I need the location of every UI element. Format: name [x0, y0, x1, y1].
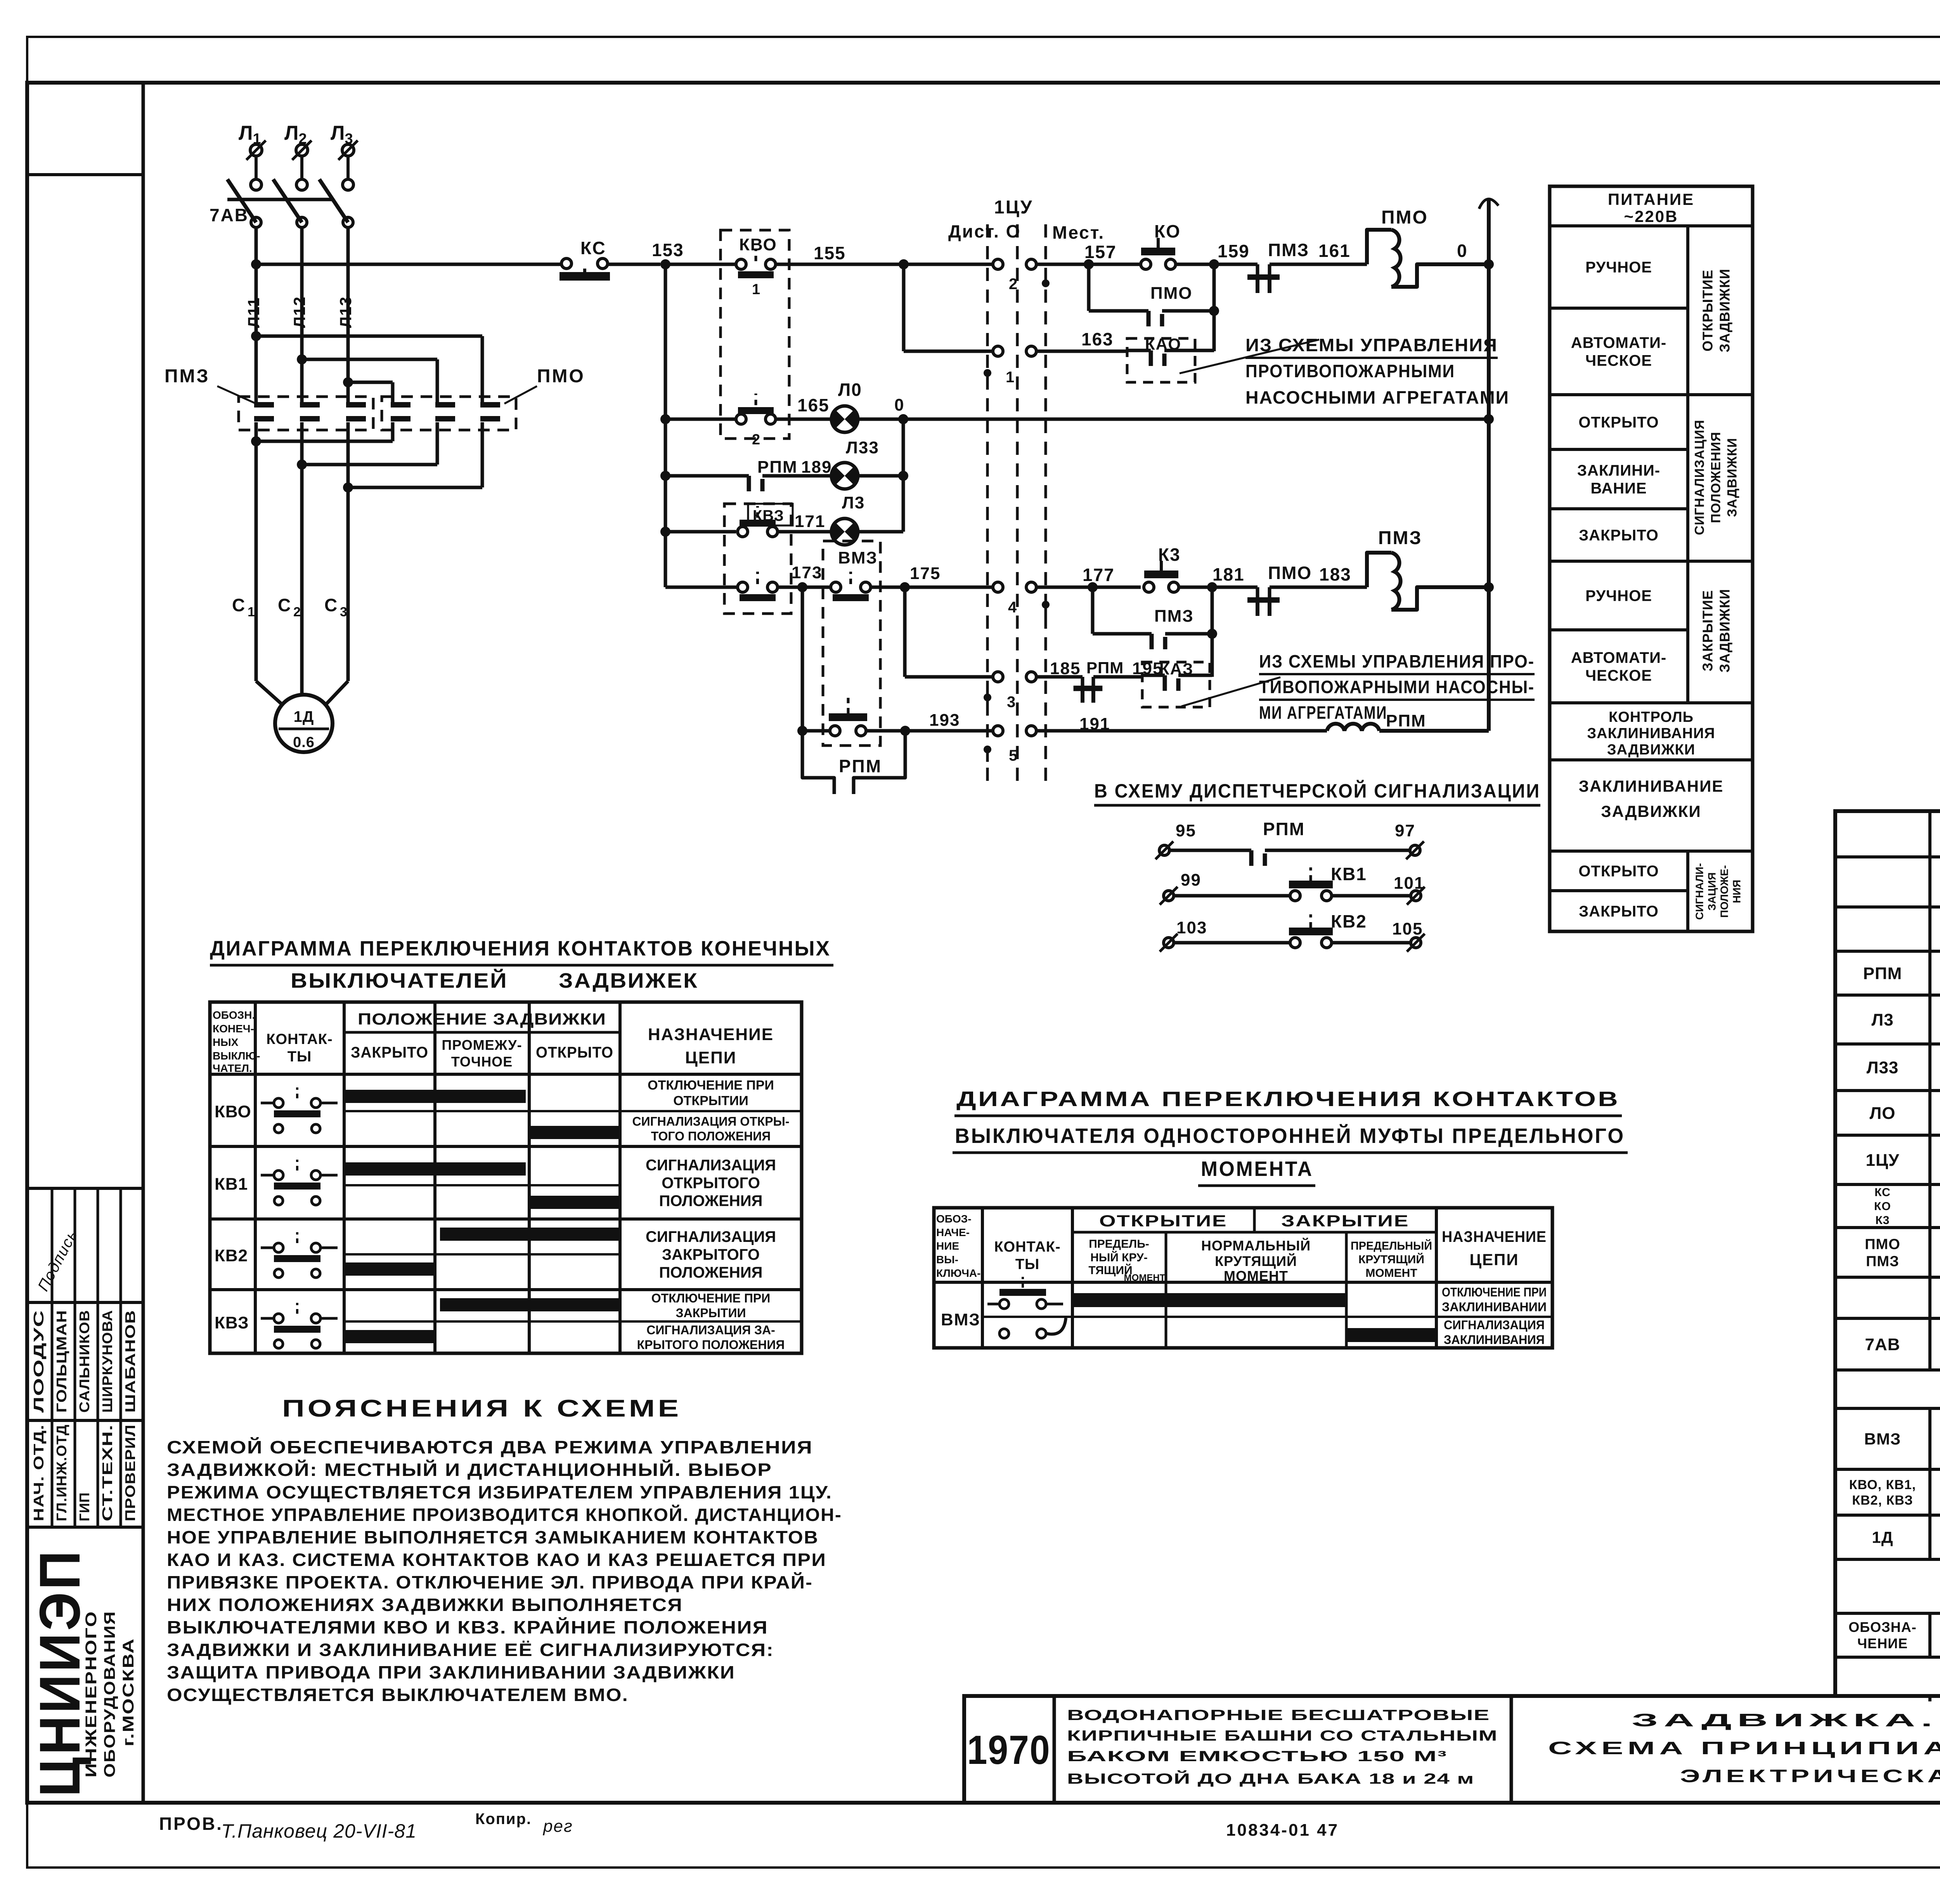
svg-text:7АВ: 7АВ	[1865, 1335, 1900, 1354]
КВ1 state bars	[344, 1162, 526, 1176]
relay contact РПМ (NO)	[747, 476, 751, 491]
svg-text:Л11: Л11	[244, 297, 263, 328]
svg-text:КВЗ: КВЗ	[215, 1313, 249, 1332]
svg-text:1: 1	[752, 281, 760, 298]
svg-text:К3: К3	[1876, 1214, 1890, 1227]
svg-text:ЦЕПИ: ЦЕПИ	[1469, 1250, 1519, 1269]
svg-text:Л0: Л0	[838, 380, 862, 400]
КВО contact 2	[736, 414, 746, 424]
torque switch table	[934, 1208, 1552, 1348]
svg-text:г.МОСКВА: г.МОСКВА	[120, 1638, 137, 1746]
wire rail to КВО	[665, 263, 736, 266]
svg-text:ДИАГРАММА ПЕРЕКЛЮЧЕНИЯ КОНТА: ДИАГРАММА ПЕРЕКЛЮЧЕНИЯ КОНТАКТОВ	[956, 1087, 1620, 1111]
limit switch table	[210, 1002, 802, 1353]
svg-text:ОТКРЫТО: ОТКРЫТО	[536, 1044, 613, 1061]
svg-text:ПМЗ: ПМЗ	[1378, 528, 1422, 548]
svg-text:ПОЛОЖЕНИЯ: ПОЛОЖЕНИЯ	[1709, 432, 1723, 523]
svg-text:С: С	[324, 595, 338, 615]
1ЦУ contact 5	[993, 726, 1003, 736]
svg-text:ОТКЛЮЧЕНИЕ ПРИ: ОТКЛЮЧЕНИЕ ПРИ	[648, 1078, 774, 1092]
svg-text:189: 189	[801, 458, 832, 477]
main contact	[391, 402, 411, 408]
svg-text:Л13: Л13	[336, 296, 355, 328]
svg-text:КИРПИЧНЫЕ БАШНИ СО СТАЛЬНЫМ: КИРПИЧНЫЕ БАШНИ СО СТАЛЬНЫМ	[1067, 1728, 1498, 1744]
svg-text:КРУТЯЩИЙ: КРУТЯЩИЙ	[1215, 1253, 1297, 1269]
svg-text:РПМ: РПМ	[839, 756, 882, 776]
svg-text:КВО, КВ1,: КВО, КВ1,	[1849, 1477, 1916, 1492]
svg-text:МОМЕНТ: МОМЕНТ	[1365, 1267, 1417, 1280]
wire 181	[1179, 586, 1258, 589]
svg-text:0: 0	[1457, 241, 1467, 261]
svg-text:РПМ: РПМ	[1086, 659, 1124, 677]
wire 157	[1036, 263, 1141, 266]
svg-text:КРЫТОГО ПОЛОЖЕНИЯ: КРЫТОГО ПОЛОЖЕНИЯ	[637, 1338, 785, 1352]
svg-text:НОРМАЛЬНЫЙ: НОРМАЛЬНЫЙ	[1201, 1237, 1311, 1254]
svg-text:ЛООДУС: ЛООДУС	[31, 1310, 47, 1413]
stamp column box lines	[27, 173, 143, 176]
svg-text:НЫЙ КРУ-: НЫЙ КРУ-	[1090, 1251, 1148, 1264]
supply table ПИТАНИЕ ~220В	[1550, 186, 1753, 931]
lamp row Л33	[665, 474, 749, 478]
1ЦУ contact 3	[993, 672, 1003, 682]
svg-text:191: 191	[1079, 714, 1110, 734]
svg-text:185: 185	[1050, 659, 1081, 678]
svg-text:КС: КС	[580, 238, 606, 258]
КВО state bars	[344, 1090, 526, 1103]
contactor ПМЗ main contacts (dashed box)	[239, 397, 373, 430]
svg-text:ПМО: ПМО	[1381, 207, 1428, 228]
svg-text:ЛО: ЛО	[1869, 1104, 1895, 1123]
svg-text:10834-01 47: 10834-01 47	[1226, 1821, 1339, 1840]
phase wire Л13	[346, 227, 350, 404]
svg-text:СИГНАЛИЗАЦИЯ ОТКРЫ-: СИГНАЛИЗАЦИЯ ОТКРЫ-	[632, 1115, 789, 1129]
svg-text:КС: КС	[1874, 1186, 1891, 1199]
svg-text:157: 157	[1084, 242, 1117, 262]
svg-text:ИНЖЕНЕРНОГО: ИНЖЕНЕРНОГО	[83, 1611, 100, 1777]
contactor ПМО main contacts (dashed box)	[382, 397, 516, 430]
lamp row Л3	[665, 530, 736, 534]
svg-text:1Д: 1Д	[1872, 1528, 1893, 1547]
svg-text:ПМО: ПМО	[1268, 563, 1312, 583]
aux contact ПМО (seal-in)	[1087, 264, 1091, 311]
svg-text:НАЗНАЧЕНИЕ: НАЗНАЧЕНИЕ	[648, 1025, 774, 1044]
line terminal Л2	[296, 144, 308, 156]
wire 177	[1036, 586, 1141, 589]
svg-text:РПМ: РПМ	[1263, 819, 1305, 839]
svg-text:~220В: ~220В	[1624, 207, 1678, 225]
phase wire Л12	[300, 227, 304, 404]
svg-text:В СХЕМУ ДИСПЕТЧЕРСКОЙ СИГНАЛИЗ: В СХЕМУ ДИСПЕТЧЕРСКОЙ СИГНАЛИЗАЦИИ	[1094, 780, 1540, 802]
leader to note 1	[1180, 340, 1319, 373]
svg-text:АВТОМАТИ-: АВТОМАТИ-	[1571, 335, 1667, 352]
svg-text:КОНТАК-: КОНТАК-	[266, 1031, 333, 1047]
svg-text:ЦЕПИ: ЦЕПИ	[685, 1048, 737, 1067]
motor leads С1 С2 С3	[255, 422, 258, 681]
svg-text:ПМО: ПМО	[1865, 1236, 1900, 1252]
svg-text:С: С	[232, 595, 245, 615]
svg-text:ПРЕДЕЛЬ-: ПРЕДЕЛЬ-	[1089, 1238, 1149, 1250]
svg-text:2: 2	[1009, 276, 1018, 293]
svg-text:183: 183	[1319, 564, 1351, 584]
line terminal Л3	[342, 144, 354, 156]
crossover junctions to reversing contacts	[251, 331, 261, 341]
svg-text:ДИАГРАММА ПЕРЕКЛЮЧЕНИЯ КОНТАК: ДИАГРАММА ПЕРЕКЛЮЧЕНИЯ КОНТАКТОВ КОНЕЧНЫ…	[210, 937, 831, 960]
svg-text:ИЗ СХЕМЫ УПРАВЛЕНИЯ ПРО-: ИЗ СХЕМЫ УПРАВЛЕНИЯ ПРО-	[1259, 651, 1535, 671]
torque switch ВМЗ (dashed box)	[823, 541, 880, 746]
right bus wire with hook	[1487, 199, 1491, 731]
КВЗ contact on lamp row	[738, 527, 748, 537]
svg-text:рег: рег	[542, 1817, 573, 1836]
wire 159	[1176, 263, 1258, 266]
left bus wire	[664, 264, 667, 587]
svg-text:ОБОРУДОВАНИЯ: ОБОРУДОВАНИЯ	[101, 1611, 118, 1777]
КВЗ state bars	[440, 1298, 622, 1311]
svg-text:ЗАДВИЖКИ: ЗАДВИЖКИ	[1717, 269, 1733, 352]
svg-text:КОНЕЧ-: КОНЕЧ-	[213, 1023, 254, 1035]
ВМЗ contact (NC)	[831, 582, 841, 592]
svg-text:НАСОСНЫМИ АГРЕГАТАМИ: НАСОСНЫМИ АГРЕГАТАМИ	[1245, 387, 1509, 408]
svg-text:177: 177	[1083, 565, 1115, 585]
svg-text:99: 99	[1181, 870, 1201, 890]
svg-text:КРУТЯЩИЙ: КРУТЯЩИЙ	[1358, 1253, 1424, 1266]
wire 155	[776, 263, 993, 266]
svg-text:ПРОВЕРИЛ: ПРОВЕРИЛ	[122, 1424, 138, 1521]
svg-text:КВ2: КВ2	[215, 1246, 248, 1265]
svg-text:ОТКРЫТИИ: ОТКРЫТИИ	[673, 1093, 748, 1108]
line terminal Л1	[250, 144, 262, 156]
svg-text:ВАНИЕ: ВАНИЕ	[1590, 480, 1647, 497]
signal row 99-101 КВ1	[1164, 891, 1174, 901]
holding row 193	[797, 726, 807, 736]
relay contact РПМ (NO button style)	[830, 726, 840, 736]
svg-text:153: 153	[652, 240, 684, 260]
wire 191	[1036, 729, 1327, 733]
svg-text:ГЛ.ИНЖ.ОТД: ГЛ.ИНЖ.ОТД	[54, 1424, 69, 1521]
1ЦУ contact 4	[993, 582, 1003, 592]
svg-text:ИЗ СХЕМЫ УПРАВЛЕНИЯ: ИЗ СХЕМЫ УПРАВЛЕНИЯ	[1245, 335, 1498, 355]
svg-text:ПМЗ: ПМЗ	[1154, 607, 1194, 626]
svg-text:173: 173	[792, 563, 822, 582]
svg-text:105: 105	[1392, 919, 1423, 938]
svg-text:ОТКЛЮЧЕНИЕ ПРИ: ОТКЛЮЧЕНИЕ ПРИ	[1442, 1285, 1547, 1299]
svg-text:НИЕ: НИЕ	[936, 1240, 959, 1252]
svg-text:95: 95	[1176, 821, 1196, 840]
svg-text:ПРОВ.: ПРОВ.	[159, 1814, 223, 1834]
closing row 173	[665, 586, 738, 589]
svg-text:Копир.: Копир.	[475, 1810, 532, 1828]
svg-text:4: 4	[1008, 599, 1017, 616]
wire 185	[1036, 675, 1083, 679]
svg-text:МОМЕНТ: МОМЕНТ	[1124, 1273, 1166, 1283]
КВЗ contact 2 (NC)	[738, 582, 748, 592]
1ЦУ contact 1	[993, 346, 1003, 356]
limit switch КВЗ (dashed box)	[724, 504, 791, 614]
svg-text:СХЕМОЙ ОБЕСПЕЧИВАЮТСЯ ДВА РЕЖИ: СХЕМОЙ ОБЕСПЕЧИВАЮТСЯ ДВА РЕЖИМА УПРАВЛЕ…	[167, 1437, 813, 1457]
РПМ seal loop	[802, 731, 834, 794]
main contact	[435, 402, 455, 408]
svg-text:РУЧНОЕ: РУЧНОЕ	[1585, 588, 1652, 605]
svg-text:ПОЯСНЕНИЯ К СХЕМЕ: ПОЯСНЕНИЯ К СХЕМЕ	[282, 1395, 682, 1422]
svg-text:ВЫСОТОЙ ДО ДНА БАКА 18 и 24 м: ВЫСОТОЙ ДО ДНА БАКА 18 и 24 м	[1067, 1770, 1474, 1787]
remote contact КАЗ (dashed box)	[1142, 662, 1210, 707]
svg-text:ОТКРЫТОГО: ОТКРЫТОГО	[662, 1175, 760, 1192]
ВМЗ contact symbol	[987, 1303, 999, 1306]
svg-text:ЗАДВИЖКИ: ЗАДВИЖКИ	[1601, 802, 1701, 820]
svg-text:ЧАТЕЛ.: ЧАТЕЛ.	[213, 1062, 252, 1074]
svg-text:3: 3	[340, 605, 347, 619]
svg-text:Т.Панковец 20-VII-81: Т.Панковец 20-VII-81	[221, 1820, 417, 1842]
svg-text:ВОДОНАПОРНЫЕ БЕСШАТРОВЫЕ: ВОДОНАПОРНЫЕ БЕСШАТРОВЫЕ	[1067, 1707, 1490, 1724]
svg-text:ЧЕНИЕ: ЧЕНИЕ	[1857, 1635, 1908, 1651]
breaker blade	[273, 179, 302, 222]
signal row 95-97 РПМ	[1159, 845, 1169, 855]
svg-text:Мест.: Мест.	[1052, 222, 1105, 243]
svg-text:ЗАДВИЖКИ: ЗАДВИЖКИ	[1717, 589, 1733, 673]
svg-text:193: 193	[929, 711, 960, 730]
wire 163	[1036, 350, 1127, 353]
svg-text:КВ2: КВ2	[1331, 911, 1367, 931]
svg-text:ШИРКУНОВА: ШИРКУНОВА	[99, 1310, 115, 1413]
svg-text:ПМЗ: ПМЗ	[165, 366, 210, 387]
svg-text:СХЕМА ПРИНЦИПИАЛЬНАЯ: СХЕМА ПРИНЦИПИАЛЬНАЯ	[1548, 1738, 1940, 1758]
svg-text:ВЫКЛЮ-: ВЫКЛЮ-	[213, 1050, 260, 1062]
svg-text:МОМЕНТ: МОМЕНТ	[1224, 1268, 1288, 1284]
svg-text:ПИТАНИЕ: ПИТАНИЕ	[1608, 190, 1694, 208]
svg-text:1Д: 1Д	[294, 708, 314, 725]
svg-text:ОБОЗН.: ОБОЗН.	[213, 1009, 255, 1021]
svg-text:ЗАДВИЖКИ: ЗАДВИЖКИ	[1725, 438, 1740, 517]
svg-text:ЗАКЛИНИВАНИЯ: ЗАКЛИНИВАНИЯ	[1444, 1333, 1545, 1347]
svg-text:ЗАКРЫТО: ЗАКРЫТО	[1579, 527, 1659, 544]
svg-text:РПМ: РПМ	[1863, 964, 1902, 983]
svg-text:ЗАЩИТА ПРИВОДА ПРИ ЗАКЛИНИВАНИ: ЗАЩИТА ПРИВОДА ПРИ ЗАКЛИНИВАНИИ ЗАДВИЖКИ	[167, 1662, 735, 1682]
svg-text:ПОЛОЖЕНИЯ: ПОЛОЖЕНИЯ	[659, 1264, 763, 1281]
svg-text:ОБОЗНА-: ОБОЗНА-	[1848, 1619, 1916, 1635]
svg-text:ОТКРЫТИЕ: ОТКРЫТИЕ	[1700, 269, 1716, 351]
svg-text:ОТКРЫТИЕ: ОТКРЫТИЕ	[1099, 1212, 1227, 1230]
svg-text:ЗАКРЫТО: ЗАКРЫТО	[1579, 903, 1659, 920]
lamp row Л0	[665, 418, 736, 421]
svg-text:СИГНАЛИЗАЦИЯ: СИГНАЛИЗАЦИЯ	[646, 1157, 776, 1174]
svg-text:2: 2	[752, 432, 760, 448]
svg-text:КВО: КВО	[215, 1102, 251, 1121]
svg-text:ВЫ-: ВЫ-	[936, 1254, 958, 1266]
svg-text:ЗАЦИЯ: ЗАЦИЯ	[1706, 872, 1718, 910]
control tap from phase Л11	[251, 259, 261, 269]
svg-text:РЕЖИМА ОСУЩЕСТВЛЯЕТСЯ ИЗБИРАТЕ: РЕЖИМА ОСУЩЕСТВЛЯЕТСЯ ИЗБИРАТЕЛЕМ УПРАВЛ…	[167, 1482, 832, 1502]
svg-text:ПРОМЕЖУ-: ПРОМЕЖУ-	[442, 1037, 522, 1053]
svg-text:ВЫКЛЮЧАТЕЛЕЙ: ВЫКЛЮЧАТЕЛЕЙ	[291, 969, 508, 992]
svg-text:СИГНАЛИЗАЦИЯ ЗА-: СИГНАЛИЗАЦИЯ ЗА-	[646, 1323, 775, 1337]
main contact	[480, 402, 500, 408]
svg-text:АВТОМАТИ-: АВТОМАТИ-	[1571, 649, 1667, 666]
svg-text:ПМЗ: ПМЗ	[1866, 1253, 1899, 1269]
relay coil РПМ	[1327, 724, 1379, 731]
1ЦУ contact 2	[993, 259, 1003, 269]
phase wire Л11	[255, 227, 258, 404]
svg-text:ПОЛОЖЕНИЯ: ПОЛОЖЕНИЯ	[659, 1193, 763, 1210]
svg-text:НОЕ УПРАВЛЕНИЕ ВЫПОЛНЯЕТСЯ ЗАМ: НОЕ УПРАВЛЕНИЕ ВЫПОЛНЯЕТСЯ ЗАМЫКАНИЕМ КО…	[167, 1527, 819, 1547]
svg-text:7АВ: 7АВ	[210, 205, 249, 225]
branch to remote contact 3	[903, 587, 907, 677]
breaker blade	[227, 179, 256, 222]
svg-text:КОНТАК-: КОНТАК-	[994, 1239, 1060, 1255]
svg-text:ОТКРЫТО: ОТКРЫТО	[1578, 414, 1659, 431]
svg-text:С: С	[278, 595, 291, 615]
interlock contact ПМЗ (NC)	[1256, 264, 1259, 274]
svg-text:НАЧЕ-: НАЧЕ-	[936, 1226, 970, 1238]
svg-text:103: 103	[1176, 918, 1207, 937]
svg-text:ВМЗ: ВМЗ	[941, 1310, 980, 1329]
svg-text:165: 165	[797, 395, 830, 415]
svg-text:ЗАКЛИНИВАНИЯ: ЗАКЛИНИВАНИЯ	[1587, 725, 1715, 742]
svg-text:ВЫКЛЮЧАТЕЛЯ ОДНОСТОРОННЕЙ МУ: ВЫКЛЮЧАТЕЛЯ ОДНОСТОРОННЕЙ МУФТЫ ПРЕДЕЛЬН…	[955, 1124, 1625, 1148]
КВ2 state bars	[440, 1228, 622, 1241]
svg-text:2: 2	[293, 605, 301, 619]
svg-text:ЗАДВИЖЕК: ЗАДВИЖЕК	[559, 969, 698, 992]
svg-text:КЛЮЧА-: КЛЮЧА-	[936, 1267, 980, 1279]
wire 161	[1270, 263, 1367, 266]
svg-text:Л33: Л33	[1867, 1058, 1899, 1077]
svg-text:0.6: 0.6	[293, 734, 315, 751]
svg-text:СИГНАЛИ-: СИГНАЛИ-	[1694, 863, 1706, 920]
remote contact КАО (dashed box)	[1127, 338, 1195, 382]
svg-text:ТЫ: ТЫ	[288, 1049, 312, 1065]
svg-text:Л12: Л12	[290, 296, 308, 328]
main contact	[346, 402, 366, 408]
svg-text:Л33: Л33	[846, 438, 879, 457]
signal row 103-105 КВ2	[1164, 938, 1174, 948]
svg-text:ЗАДВИЖКОЙ: МЕСТНЫЙ И ДИСТАНЦИО: ЗАДВИЖКОЙ: МЕСТНЫЙ И ДИСТАНЦИОННЫЙ. ВЫБО…	[167, 1460, 772, 1480]
svg-text:ЗАДВИЖКИ: ЗАДВИЖКИ	[1607, 742, 1695, 758]
svg-text:НЫХ: НЫХ	[213, 1036, 239, 1048]
svg-text:ЗАКРЫТИЕ: ЗАКРЫТИЕ	[1700, 590, 1716, 671]
svg-text:КО: КО	[1874, 1200, 1891, 1213]
svg-text:КАО И КАЗ. СИСТЕМА КОНТАКТОВ К: КАО И КАЗ. СИСТЕМА КОНТАКТОВ КАО И КАЗ Р…	[167, 1550, 826, 1570]
svg-text:Дист. О: Дист. О	[948, 221, 1021, 241]
svg-text:3: 3	[1007, 694, 1016, 711]
branch to remote contact 1	[902, 264, 906, 351]
svg-text:ТОГО ПОЛОЖЕНИЯ: ТОГО ПОЛОЖЕНИЯ	[651, 1129, 771, 1143]
svg-text:СИГНАЛИЗАЦИЯ: СИГНАЛИЗАЦИЯ	[1444, 1318, 1545, 1332]
svg-text:КВ2, КВЗ: КВ2, КВЗ	[1852, 1493, 1913, 1508]
svg-text:1970: 1970	[967, 1727, 1051, 1773]
svg-text:НАЗНАЧЕНИЕ: НАЗНАЧЕНИЕ	[1442, 1228, 1547, 1245]
svg-text:ВМЗ: ВМЗ	[838, 548, 878, 567]
selector switch 1ЦУ dashed lines	[986, 224, 989, 783]
svg-text:КВ1: КВ1	[1331, 864, 1367, 884]
svg-text:Л3: Л3	[842, 493, 865, 512]
svg-text:Л3: Л3	[1871, 1010, 1893, 1029]
equipment list table	[1835, 811, 1940, 1696]
svg-text:ПОЛОЖЕНИЕ ЗАДВИЖКИ: ПОЛОЖЕНИЕ ЗАДВИЖКИ	[358, 1010, 606, 1028]
motor 1Д	[275, 695, 333, 752]
svg-text:СИГНАЛИЗАЦИЯ: СИГНАЛИЗАЦИЯ	[1692, 420, 1707, 535]
svg-text:1ЦУ: 1ЦУ	[994, 197, 1033, 218]
svg-text:ЗАДВИЖКА.: ЗАДВИЖКА.	[1632, 1710, 1938, 1730]
svg-text:КВО: КВО	[739, 235, 777, 254]
svg-text:ГОЛЬЦМАН: ГОЛЬЦМАН	[54, 1310, 69, 1413]
svg-text:ЗАКРЫТИЕ: ЗАКРЫТИЕ	[1281, 1212, 1409, 1230]
stamp column divider	[142, 83, 145, 1803]
leader to note 2	[1181, 677, 1280, 706]
svg-text:ЧЕСКОЕ: ЧЕСКОЕ	[1585, 667, 1652, 684]
ВМЗ state bars	[1072, 1293, 1346, 1307]
svg-text:175: 175	[910, 564, 941, 583]
svg-text:1: 1	[1006, 369, 1015, 386]
svg-text:1: 1	[248, 605, 255, 619]
svg-text:НАЧ. ОТД.: НАЧ. ОТД.	[31, 1424, 47, 1521]
svg-text:ОТКЛЮЧЕНИЕ ПРИ: ОТКЛЮЧЕНИЕ ПРИ	[651, 1291, 771, 1305]
svg-text:РПМ: РПМ	[1386, 711, 1426, 730]
svg-text:1ЦУ: 1ЦУ	[1866, 1151, 1900, 1170]
svg-text:НИХ ПОЛОЖЕНИЯХ ЗАДВИЖКИ ВЫП: НИХ ПОЛОЖЕНИЯХ ЗАДВИЖКИ ВЫПОЛНЯЕТСЯ	[167, 1595, 683, 1615]
svg-text:0: 0	[894, 395, 904, 414]
svg-text:159: 159	[1218, 241, 1250, 261]
svg-text:ШАБАНОВ: ШАБАНОВ	[122, 1310, 138, 1413]
svg-text:161: 161	[1318, 241, 1351, 261]
svg-text:КВ1: КВ1	[215, 1175, 248, 1194]
aux contact ПМЗ (seal-in)	[1091, 587, 1095, 634]
svg-text:ГИП: ГИП	[76, 1492, 92, 1521]
svg-text:ВЫКЛЮЧАТЕЛЯМИ КВО И КВЗ. КРАЙН: ВЫКЛЮЧАТЕЛЯМИ КВО И КВЗ. КРАЙНИЕ ПОЛОЖЕН…	[167, 1617, 768, 1637]
svg-text:ВМЗ: ВМЗ	[1864, 1430, 1901, 1448]
svg-text:ОСУЩЕСТВЛЯЕТСЯ ВЫКЛЮЧАТЕЛЕМ: ОСУЩЕСТВЛЯЕТСЯ ВЫКЛЮЧАТЕЛЕМ ВМО.	[167, 1685, 629, 1705]
svg-text:ПРОТИВОПОЖАРНЫМИ: ПРОТИВОПОЖАРНЫМИ	[1245, 361, 1455, 381]
svg-text:НИЯ: НИЯ	[1731, 880, 1743, 903]
svg-text:ПМО: ПМО	[1150, 284, 1193, 303]
svg-text:ЭЛЕКТРИЧЕСКАЯ.: ЭЛЕКТРИЧЕСКАЯ.	[1680, 1766, 1940, 1786]
interlock contact ПМО (NC)	[1256, 587, 1259, 597]
svg-text:101: 101	[1394, 874, 1424, 893]
svg-text:5: 5	[1009, 747, 1018, 764]
svg-text:ПОЛОЖЕ-: ПОЛОЖЕ-	[1718, 865, 1730, 918]
svg-text:МИ АГРЕГАТАМИ: МИ АГРЕГАТАМИ	[1259, 702, 1387, 723]
svg-text:97: 97	[1395, 821, 1415, 840]
svg-text:ЗАКРЫТО: ЗАКРЫТО	[351, 1044, 428, 1061]
svg-text:КОНТРОЛЬ: КОНТРОЛЬ	[1609, 709, 1694, 725]
svg-text:181: 181	[1212, 564, 1245, 584]
svg-text:СИГНАЛИЗАЦИЯ: СИГНАЛИЗАЦИЯ	[646, 1228, 776, 1245]
svg-text:ТИВОПОЖАРНЫМИ НАСОСНЫ-: ТИВОПОЖАРНЫМИ НАСОСНЫ-	[1259, 677, 1535, 697]
svg-text:ЗАКРЫТОГО: ЗАКРЫТОГО	[662, 1246, 760, 1263]
title block	[964, 1696, 1940, 1803]
svg-text:ПРЕДЕЛЬНЫЙ: ПРЕДЕЛЬНЫЙ	[1351, 1239, 1432, 1252]
svg-text:РУЧНОЕ: РУЧНОЕ	[1585, 259, 1652, 276]
main contact	[300, 402, 320, 408]
svg-text:СТ.ТЕХН.: СТ.ТЕХН.	[99, 1424, 115, 1521]
svg-text:МЕСТНОЕ УПРАВЛЕНИЕ ПРОИЗВОДИТС: МЕСТНОЕ УПРАВЛЕНИЕ ПРОИЗВОДИТСЯ КНОПКОЙ.…	[167, 1505, 842, 1525]
breaker blade	[319, 179, 348, 222]
svg-text:ЧЕСКОЕ: ЧЕСКОЕ	[1585, 352, 1652, 369]
КВО contact 1	[736, 259, 746, 269]
svg-text:ЗАДВИЖКИ И ЗАКЛИНИВАНИЕ ЕЁ: ЗАДВИЖКИ И ЗАКЛИНИВАНИЕ ЕЁ СИГНАЛИЗИРУЮТ…	[167, 1640, 774, 1660]
svg-text:ЗАКЛИНИВАНИИ: ЗАКЛИНИВАНИИ	[1442, 1300, 1547, 1314]
svg-text:МОМЕНТА: МОМЕНТА	[1201, 1157, 1313, 1181]
wire 183	[1270, 586, 1367, 589]
svg-text:163: 163	[1081, 329, 1114, 349]
svg-text:ЗАКЛИНИ-: ЗАКЛИНИ-	[1577, 462, 1660, 479]
svg-text:ЗАКЛИНИВАНИЕ: ЗАКЛИНИВАНИЕ	[1579, 777, 1724, 795]
svg-text:ОТКРЫТО: ОТКРЫТО	[1578, 863, 1659, 880]
main contact	[254, 402, 274, 408]
svg-text:171: 171	[795, 512, 825, 531]
svg-text:РПМ: РПМ	[757, 458, 798, 477]
svg-text:ПМЗ: ПМЗ	[1268, 240, 1309, 260]
svg-text:ЗАКРЫТИИ: ЗАКРЫТИИ	[676, 1306, 746, 1320]
svg-text:ТОЧНОЕ: ТОЧНОЕ	[451, 1054, 513, 1070]
svg-text:САЛЬНИКОВ: САЛЬНИКОВ	[76, 1310, 92, 1413]
